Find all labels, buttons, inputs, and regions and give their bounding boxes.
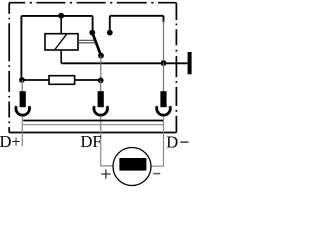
wire: D- plug lead	[163, 63, 165, 91]
wire: left vertical from top bus down to D+ node	[20, 16, 22, 80]
node: D+ junction dot	[19, 77, 25, 83]
battery circle	[113, 148, 151, 186]
switch contact arm	[92, 33, 101, 56]
wire: fixed contact riser	[109, 16, 111, 33]
wire: main horizontal wire to B+ terminal	[61, 62, 187, 64]
wire: DF down to battery plus	[101, 116, 114, 166]
plug pin D+	[20, 91, 26, 107]
socket cup D-	[157, 106, 171, 115]
resistor box	[49, 76, 75, 85]
regulator base plate solid bottom line	[9, 132, 176, 134]
label D- dash	[180, 141, 188, 143]
chassis bus upper line	[23, 120, 163, 122]
battery cell bar	[119, 158, 146, 171]
regulator housing dash-dot border top	[9, 2, 176, 4]
switch pivot dot	[89, 30, 95, 36]
wire: D+ stub below socket	[21, 116, 23, 147]
wire: D+ plug lead	[21, 80, 23, 91]
wire: arm bottom down to DF node	[100, 56, 102, 81]
switch fixed contact dot	[107, 30, 113, 36]
plug pin DF	[98, 91, 104, 107]
wire: D- column drop from top right run to main wire	[163, 21, 165, 63]
relay armature linkage double line	[78, 40, 97, 43]
wire: switch pivot drop from top bus	[92, 16, 94, 31]
wire: top right run from contact to D- column	[110, 16, 164, 23]
plug pin D-	[160, 91, 166, 107]
chassis bus lower thin line	[23, 124, 163, 126]
wire: lower horizontal wire D+ node to DF node	[22, 79, 101, 81]
svg-text:D: D	[166, 132, 178, 151]
regulator housing dash-dot border left	[8, 3, 10, 133]
label battery minus	[153, 173, 160, 175]
node: D- junction dot on main wire	[161, 60, 167, 66]
regulator housing dash-dot border right	[175, 3, 177, 133]
wire: relay coil bottom lead down to main horizontal wire	[60, 50, 62, 63]
relay coil box	[45, 34, 78, 50]
wire: D- down to battery minus	[151, 116, 164, 166]
wire: relay coil top lead	[60, 16, 62, 34]
node: DF junction dot	[98, 78, 104, 84]
relay coil slash	[55, 34, 68, 50]
svg-text:D+: D+	[0, 132, 21, 151]
wire: DF plug lead	[100, 80, 102, 91]
wire: top bus from left wire to switch pivot corner	[21, 15, 92, 17]
node: top bus junction dot	[58, 13, 64, 19]
terminal B+ stud bar	[188, 52, 192, 74]
svg-text:DF: DF	[81, 132, 102, 151]
svg-text:+: +	[100, 164, 111, 186]
socket cup DF	[94, 106, 108, 115]
socket cup D+	[16, 106, 30, 115]
switch arm bottom dot	[98, 53, 104, 59]
